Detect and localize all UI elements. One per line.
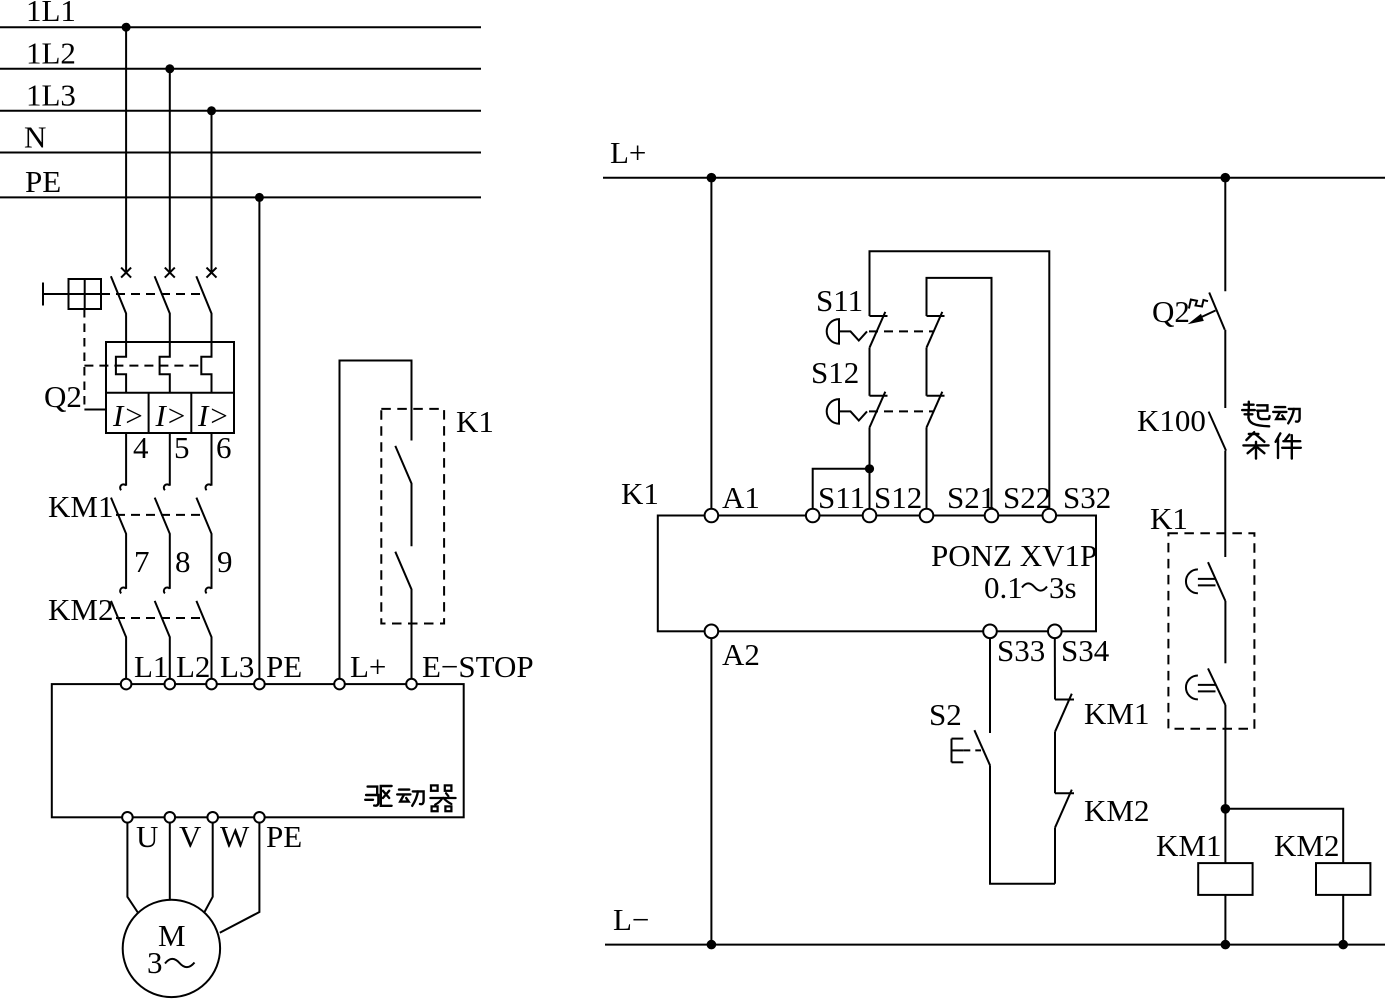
label A2 <box>722 637 760 672</box>
svg-text:Q2: Q2 <box>1152 294 1190 329</box>
wire KM2 to bottom elbow <box>1054 828 1056 884</box>
svg-text:K1: K1 <box>1150 501 1188 536</box>
label terminal 4 <box>133 430 149 465</box>
Q2 manual operator square <box>43 279 101 309</box>
bus 1L2 <box>0 36 481 71</box>
label S2 <box>929 697 962 732</box>
wire Q2 aux to K100 <box>1224 330 1226 408</box>
label S34 <box>1061 633 1110 668</box>
terminal L+ <box>334 679 345 690</box>
wire PE to motor <box>220 823 260 933</box>
junction A2 L- <box>707 940 717 950</box>
label KM1 (feedback) <box>1084 696 1149 731</box>
svg-text:9: 9 <box>217 544 233 579</box>
S11 gang dashes <box>869 330 934 332</box>
svg-text:S12: S12 <box>874 480 922 515</box>
contactor KM2 pole 2 contact <box>155 588 170 679</box>
mechanical linkage dashed (blades) <box>101 293 204 295</box>
label PE top <box>266 649 302 684</box>
label I> pole 1 <box>112 398 144 433</box>
K1 dashed box (drive side) <box>381 409 444 624</box>
label L+ <box>350 649 386 684</box>
terminal S32 <box>1043 509 1057 523</box>
wire branch to KM2 coil <box>1225 809 1343 863</box>
svg-text:8: 8 <box>175 544 191 579</box>
wire 1L3 to Q2 <box>211 111 213 271</box>
breaker Q2 pole 1 contact x <box>121 268 131 278</box>
wire 1L1 to Q2 <box>125 27 127 271</box>
wire S2 to bottom elbow <box>990 765 1055 883</box>
wire S33 down <box>989 638 991 733</box>
coil KM2 <box>1274 828 1370 895</box>
wire right chain to S21 <box>926 428 928 509</box>
svg-text:KM2: KM2 <box>1084 793 1149 828</box>
terminal S11 <box>806 509 820 523</box>
label terminal 5 <box>174 430 190 465</box>
wire KM1 coil to L- <box>1224 895 1226 945</box>
breaker Q2 pole 3 blade <box>196 276 211 342</box>
wire left chain to S11/S12 terminals <box>813 428 870 509</box>
svg-text:I>: I> <box>155 398 187 433</box>
svg-text:S33: S33 <box>997 633 1045 668</box>
terminal L2 <box>165 679 176 690</box>
label L1 <box>134 649 168 684</box>
junction coil branch <box>1221 804 1231 814</box>
wire S11-S12 link <box>869 348 871 396</box>
svg-text:3: 3 <box>147 945 163 980</box>
safety relay K1 box PONZ XV1P <box>658 516 1097 632</box>
svg-text:7: 7 <box>134 544 150 579</box>
terminal S12 <box>863 509 877 523</box>
terminal PE bottom <box>254 812 265 823</box>
svg-text:L+: L+ <box>610 135 646 170</box>
trip element pole 2 <box>160 342 170 393</box>
label I> pole 3 <box>197 398 229 433</box>
contactor KM2 pole 1 contact <box>111 588 126 679</box>
wire K1 contacts link <box>1224 601 1226 663</box>
wire PE to drive <box>258 197 260 678</box>
breaker Q2 body box <box>106 342 234 433</box>
svg-text:1L3: 1L3 <box>26 78 76 113</box>
breaker Q2 pole 1 blade <box>111 276 126 342</box>
svg-text:KM2: KM2 <box>48 592 113 627</box>
svg-text:S22: S22 <box>1003 480 1051 515</box>
terminal S21 <box>920 509 934 523</box>
estop right chain upper contact <box>927 278 992 509</box>
terminal S33 <box>983 625 997 639</box>
label S11 term <box>818 480 865 515</box>
bus PE <box>0 164 481 199</box>
svg-text:I>: I> <box>197 398 229 433</box>
svg-text:I>: I> <box>112 398 144 433</box>
wire L+ to A1 <box>710 178 712 509</box>
junction L+ Q2 branch <box>1221 173 1231 183</box>
wire right chain link <box>926 348 928 396</box>
wire W to motor <box>205 823 213 912</box>
label I> pole 2 <box>155 398 187 433</box>
svg-text:Q2: Q2 <box>44 379 82 414</box>
junction KM2 L- <box>1338 940 1348 950</box>
contact K100 <box>1209 412 1226 451</box>
label E-STOP <box>422 649 534 684</box>
label 起动条件 (hand-drawn) <box>1242 402 1301 459</box>
junction S11/S12 <box>865 464 874 473</box>
svg-text:S11: S11 <box>816 283 863 318</box>
svg-text:0.1: 0.1 <box>984 570 1023 605</box>
breaker aux contact Q2 <box>1188 293 1225 330</box>
bus N <box>0 120 481 155</box>
contactor KM1 pole 2 contact <box>155 484 170 589</box>
junction 1L1 tap <box>122 23 131 32</box>
contact KM2 NC (feedback) <box>1055 790 1074 828</box>
wire U to motor <box>127 823 138 914</box>
label KM2 <box>48 592 113 627</box>
drive box 驱动器 <box>52 684 464 817</box>
relay contact K1 lower (drive) <box>395 552 411 679</box>
svg-text:L+: L+ <box>350 649 386 684</box>
label Q2 <box>44 379 82 414</box>
wire S34 down <box>1054 638 1056 699</box>
label K1 (relay) <box>621 476 659 511</box>
svg-text:PE: PE <box>266 649 302 684</box>
svg-text:U: U <box>136 819 158 854</box>
label S22 term <box>1003 480 1051 515</box>
label KM1 <box>48 489 113 524</box>
wire K100 to K1 contacts <box>1224 451 1226 557</box>
label terminal 6 <box>216 430 232 465</box>
label S21 term <box>947 480 995 515</box>
motor M 3~ <box>123 900 220 997</box>
pushbutton S2 <box>952 730 991 765</box>
svg-text:K100: K100 <box>1137 403 1206 438</box>
label A1 <box>722 480 760 515</box>
svg-text:KM2: KM2 <box>1274 828 1339 863</box>
svg-text:1L2: 1L2 <box>26 36 76 71</box>
junction KM1 L- <box>1221 940 1231 950</box>
svg-text:3s: 3s <box>1049 570 1077 605</box>
terminal S34 <box>1048 625 1062 639</box>
estop S11 contact (left chain) <box>870 251 1050 508</box>
svg-text:KM1: KM1 <box>1156 828 1221 863</box>
label terminal 8 <box>175 544 191 579</box>
relay contact K1 delayed lower <box>1186 668 1225 705</box>
svg-text:L1: L1 <box>134 649 168 684</box>
svg-text:S21: S21 <box>947 480 995 515</box>
trip linkage dashed <box>84 365 203 367</box>
terminal V <box>165 812 176 823</box>
trip element pole 3 <box>201 342 211 393</box>
terminal S22 <box>985 509 999 523</box>
contactor KM1 pole 1 contact <box>111 484 126 589</box>
breaker Q2 pole 2 contact x <box>165 268 175 278</box>
label PE bottom <box>266 819 302 854</box>
svg-text:A1: A1 <box>722 480 760 515</box>
label K100 <box>1137 403 1206 438</box>
terminal L3 <box>206 679 217 690</box>
svg-text:PE: PE <box>266 819 302 854</box>
junction 1L3 tap <box>207 106 216 115</box>
label L2 <box>176 649 210 684</box>
label S33 <box>997 633 1045 668</box>
KM1 linkage dashed <box>116 514 204 516</box>
label V <box>179 819 202 854</box>
breaker Q2 pole 3 contact x <box>207 268 217 278</box>
bus 1L1 <box>0 0 481 28</box>
trip element pole 1 <box>116 342 126 393</box>
terminal W <box>207 812 218 823</box>
estop right chain lower contact <box>927 392 945 428</box>
relay contact K1 upper (drive) <box>395 446 411 546</box>
svg-text:4: 4 <box>133 430 149 465</box>
wire pole2 box to KM1 <box>169 433 171 486</box>
label U <box>136 819 158 854</box>
coil KM1 <box>1156 828 1253 895</box>
svg-text:KM1: KM1 <box>1084 696 1149 731</box>
contactor KM1 pole 3 contact <box>196 484 211 589</box>
terminal L1 <box>121 679 132 690</box>
wire pole1 box to KM1 <box>125 433 127 486</box>
svg-text:V: V <box>179 819 202 854</box>
svg-text:S11: S11 <box>818 480 865 515</box>
svg-text:A2: A2 <box>722 637 760 672</box>
rail L- <box>605 902 1385 945</box>
wire A2 to L- <box>710 638 712 945</box>
wire L+ loop to K1 contacts <box>340 361 412 679</box>
terminal E-STOP <box>406 679 417 690</box>
label S11 <box>816 283 863 318</box>
relay contact K1 delayed upper <box>1186 562 1225 601</box>
svg-text:S34: S34 <box>1061 633 1110 668</box>
svg-text:KM1: KM1 <box>48 489 113 524</box>
wire KM1-KM2 link <box>1054 732 1056 794</box>
label KM2 (feedback) <box>1084 793 1149 828</box>
label L3 <box>220 649 254 684</box>
svg-text:L−: L− <box>613 902 649 937</box>
junction L+ A1 <box>707 173 717 183</box>
junction PE tap <box>255 193 264 202</box>
svg-text:E−STOP: E−STOP <box>422 649 534 684</box>
svg-text:1L1: 1L1 <box>26 0 76 28</box>
svg-text:6: 6 <box>216 430 232 465</box>
KM2 linkage dashed <box>116 617 204 619</box>
label W <box>220 819 250 854</box>
wire KM2 coil to L- <box>1342 895 1344 945</box>
wire L+ to Q2 aux <box>1224 178 1226 292</box>
label S12 <box>811 355 859 390</box>
svg-text:K1: K1 <box>456 404 494 439</box>
rail L+ <box>603 135 1385 178</box>
svg-text:L2: L2 <box>176 649 210 684</box>
svg-text:L3: L3 <box>220 649 254 684</box>
svg-text:PE: PE <box>25 164 61 199</box>
wire V to motor <box>169 823 171 900</box>
estop S12 actuator <box>827 399 867 424</box>
S12 gang dashes <box>869 410 934 412</box>
terminal PE top <box>254 679 265 690</box>
junction 1L2 tap <box>165 64 174 73</box>
terminal U <box>122 812 133 823</box>
label S32 term <box>1063 480 1111 515</box>
label terminal 7 <box>134 544 150 579</box>
label K1 (drive side) <box>456 404 494 439</box>
label K1 (right box) <box>1150 501 1188 536</box>
wire K1 to coils <box>1224 705 1226 863</box>
wire pole3 box to KM1 <box>211 433 213 486</box>
estop S12 contact (left chain) <box>870 392 888 428</box>
svg-text:K1: K1 <box>621 476 659 511</box>
svg-text:5: 5 <box>174 430 190 465</box>
wire 1L2 to Q2 <box>169 69 171 271</box>
K1 dashed box (right) <box>1168 533 1254 729</box>
label S12 term <box>874 480 922 515</box>
contact KM1 NC (feedback) <box>1055 694 1074 732</box>
breaker Q2 pole 2 blade <box>155 276 170 342</box>
mechanical linkage dashed (operator to trip box) <box>84 309 106 410</box>
svg-text:PONZ XV1P: PONZ XV1P <box>931 538 1097 573</box>
label terminal 9 <box>217 544 233 579</box>
terminal A1 <box>705 509 719 523</box>
svg-text:S32: S32 <box>1063 480 1111 515</box>
svg-text:N: N <box>24 120 46 155</box>
label 驱动器 (hand-drawn) <box>365 785 455 811</box>
estop S11 actuator <box>827 319 867 344</box>
svg-text:W: W <box>220 819 250 854</box>
svg-text:S12: S12 <box>811 355 859 390</box>
terminal A2 <box>705 625 719 639</box>
label Q2 aux <box>1152 294 1190 329</box>
bus 1L3 <box>0 78 481 113</box>
svg-text:S2: S2 <box>929 697 962 732</box>
contactor KM2 pole 3 contact <box>196 588 211 679</box>
